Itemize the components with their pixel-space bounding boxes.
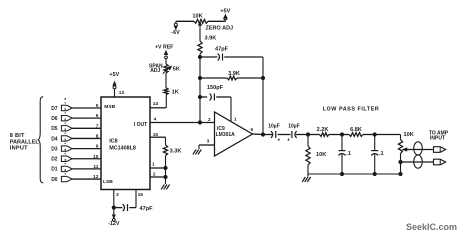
wire pin 3 stub — [114, 190, 119, 208]
capacitor 47pF (DAC comp) — [114, 204, 153, 212]
svg-text:D5: D5 — [51, 126, 58, 132]
svg-text:10: 10 — [93, 154, 99, 160]
supply +5V (DAC pin 13) — [109, 72, 124, 97]
wire pin 2 stub — [150, 171, 168, 179]
input D3 (pin 9) — [51, 139, 101, 153]
svg-text:D3: D3 — [51, 146, 58, 152]
plug to amp 2 — [434, 159, 446, 165]
svg-text:4: 4 — [154, 117, 157, 123]
svg-text:-12V: -12V — [108, 221, 120, 227]
capacitor .1 (filter 2) — [371, 135, 383, 175]
svg-text:PARALLEL: PARALLEL — [10, 139, 40, 145]
ground (DAC pins 1,2) — [161, 185, 170, 190]
node filter input — [306, 132, 310, 136]
ground (op-amp pin 3) — [193, 150, 202, 155]
node 3.9K tee — [198, 76, 202, 80]
svg-text:10K: 10K — [316, 152, 326, 158]
svg-text:14: 14 — [153, 101, 159, 107]
svg-text:3: 3 — [116, 192, 119, 198]
svg-text:INPUT: INPUT — [10, 146, 28, 152]
svg-text:1: 1 — [234, 117, 237, 123]
wire shield row — [401, 161, 434, 163]
capacitor 10uF (coupling 1) — [268, 123, 290, 143]
pin 2 label (op-amp) — [208, 117, 211, 123]
DAC IC8 MC1408L8 box — [101, 97, 150, 190]
svg-text:2.2K: 2.2K — [317, 127, 329, 133]
node pin 3 junction — [112, 206, 116, 210]
wire I OUT pin 4 to op-amp pin 2 — [150, 117, 215, 123]
svg-text:10K: 10K — [404, 132, 414, 138]
svg-text:I OUT: I OUT — [134, 122, 147, 128]
capacitor 150pF (compensation) — [200, 85, 231, 122]
svg-text:6: 6 — [250, 127, 253, 133]
plug to amp 1 — [434, 147, 446, 153]
capacitor 47pF (feedback) — [200, 46, 263, 78]
resistor 1K (span) — [164, 73, 179, 96]
wire to output pot — [375, 134, 401, 136]
svg-text:D1: D1 — [51, 167, 58, 173]
resistor 6.8K (series) — [342, 127, 375, 136]
svg-text:8: 8 — [96, 133, 99, 139]
label 8 BIT PARALLEL INPUT — [10, 133, 40, 151]
svg-text:D7: D7 — [51, 106, 58, 112]
svg-text:10µF: 10µF — [288, 123, 300, 129]
node pot tap (shield) — [398, 160, 402, 164]
svg-text:6.8K: 6.8K — [350, 127, 362, 133]
svg-text:ADJ: ADJ — [150, 68, 160, 74]
svg-text:LOW PASS FILTER: LOW PASS FILTER — [323, 106, 380, 112]
supply -12V — [108, 208, 120, 228]
wire column zero-adj to inverting input — [199, 54, 201, 123]
input D1 (pin 11) — [51, 159, 101, 173]
input D6 (pin 6) — [51, 108, 101, 122]
svg-text:3.9K: 3.9K — [205, 36, 217, 42]
svg-text:8 BIT: 8 BIT — [10, 133, 25, 139]
svg-text:5: 5 — [96, 103, 99, 109]
svg-text:3.3K: 3.3K — [170, 149, 182, 155]
svg-text:+5V: +5V — [220, 9, 230, 15]
svg-text:1: 1 — [152, 161, 155, 167]
svg-text:.1: .1 — [379, 151, 384, 157]
connector jack 1 — [414, 142, 423, 155]
svg-text:12: 12 — [93, 174, 99, 180]
wiper arrow (output pot) — [403, 148, 434, 151]
svg-text:3: 3 — [207, 139, 210, 145]
input D2 (pin 10) — [51, 149, 101, 163]
wire op-amp pin 3 stub — [199, 145, 215, 149]
node filter mid 1 — [340, 132, 344, 136]
pin 3 label (op-amp) — [207, 139, 210, 145]
label I OUT (pin 4) — [134, 122, 147, 128]
node 47pF tee — [198, 55, 202, 59]
supply +5V (zero adj) — [220, 9, 230, 22]
resistor 3.9K (feedback) — [200, 71, 263, 80]
svg-text:+: + — [277, 137, 280, 143]
op-amp IC9 LM301A — [215, 112, 253, 156]
svg-text:1K: 1K — [172, 90, 179, 96]
wire feedback vertical — [261, 76, 265, 135]
svg-text:150pF: 150pF — [207, 85, 224, 91]
input D0 (pin 12) — [51, 169, 101, 183]
svg-text:LM301A: LM301A — [216, 132, 236, 138]
svg-text:MC1408L8: MC1408L8 — [109, 146, 136, 152]
svg-text:7: 7 — [96, 123, 99, 129]
svg-text:11: 11 — [93, 164, 98, 170]
resistor 3.3K — [163, 145, 181, 156]
wire 3.3K to ground — [165, 156, 167, 184]
potentiometer SPAN ADJ 5K — [149, 63, 180, 74]
potentiometer 10K (output level) — [398, 132, 413, 174]
svg-text:D6: D6 — [51, 116, 58, 122]
resistor 2.2K (series) — [308, 127, 342, 136]
resistor 3.9K (zero adj) — [198, 28, 216, 55]
svg-text:5K: 5K — [173, 66, 180, 72]
svg-text:D0: D0 — [51, 177, 58, 183]
capacitor .1 (filter 1) — [339, 135, 351, 175]
svg-text:.1: .1 — [346, 151, 351, 157]
svg-text:10K: 10K — [192, 13, 202, 19]
pin 1 label (op-amp) — [234, 117, 237, 123]
capacitor 10uF (coupling 2) — [287, 123, 309, 143]
input D7 (pin 5) — [51, 98, 101, 112]
wire pin 16 stub — [136, 190, 143, 208]
svg-text:+: + — [287, 137, 290, 143]
wire pin 15 stub — [150, 132, 166, 145]
svg-text:+5V: +5V — [109, 72, 119, 78]
svg-text:+V REF: +V REF — [155, 44, 173, 50]
svg-text:MSB: MSB — [104, 104, 115, 110]
pin 6 label (op-amp) — [250, 127, 253, 133]
svg-text:ZERO ADJ: ZERO ADJ — [206, 26, 234, 32]
supply -6V — [171, 21, 180, 36]
svg-text:IC8: IC8 — [109, 139, 117, 145]
svg-text:D4: D4 — [51, 136, 58, 142]
svg-text:10µF: 10µF — [268, 123, 280, 129]
svg-text:47pF: 47pF — [140, 206, 154, 212]
wire pin 1 stub — [150, 161, 168, 170]
wire op-amp output — [253, 133, 269, 136]
svg-text:-6V: -6V — [171, 30, 180, 36]
svg-text:LSB: LSB — [103, 179, 113, 185]
input D4 (pin 8) — [51, 128, 101, 142]
connector jack 2 — [414, 155, 423, 168]
supply +V REF — [155, 44, 173, 64]
svg-text:13: 13 — [119, 90, 125, 96]
node 150pF tee — [198, 95, 202, 99]
resistor 10K (shunt) — [306, 135, 326, 175]
svg-text:9: 9 — [96, 144, 99, 150]
svg-text:6: 6 — [96, 113, 99, 119]
svg-text:D2: D2 — [51, 157, 58, 163]
svg-text:16: 16 — [138, 192, 144, 198]
svg-text:INPUT: INPUT — [430, 136, 445, 142]
svg-text:47pF: 47pF — [215, 46, 229, 52]
ground (filter rail) — [302, 174, 311, 182]
watermark SeekIC.com — [406, 222, 457, 232]
svg-text:3.9K: 3.9K — [228, 71, 240, 77]
brace 8-bit input — [38, 97, 43, 184]
node pot bottom — [398, 172, 402, 176]
wire pin 14 stub — [150, 95, 166, 108]
node filter mid 2 — [373, 132, 377, 136]
node inverting input junction — [198, 120, 202, 124]
input D5 (pin 7) — [51, 118, 101, 132]
svg-text:SeekIC.com: SeekIC.com — [406, 222, 457, 232]
wire ground rail — [308, 172, 401, 176]
potentiometer ZERO ADJ 10K — [176, 13, 233, 31]
svg-text:2: 2 — [153, 171, 156, 177]
label LOW PASS FILTER — [323, 106, 380, 112]
label TO AMP INPUT — [429, 130, 449, 141]
svg-text:15: 15 — [153, 132, 159, 138]
node output junction — [261, 132, 265, 136]
